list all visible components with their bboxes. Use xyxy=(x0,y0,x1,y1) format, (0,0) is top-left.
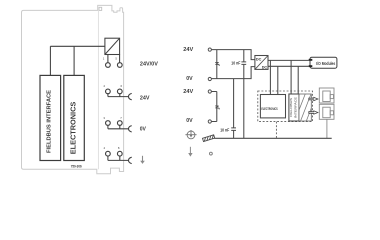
socket earth drop xyxy=(326,119,328,138)
svg-text:FIELDBUS INTERFACE: FIELDBUS INTERFACE xyxy=(46,90,52,153)
contact arrow earth xyxy=(129,157,132,163)
jumper contact arrow top xyxy=(309,97,318,100)
terminal 6 xyxy=(117,89,122,94)
terminal 3 xyxy=(106,121,111,126)
terminal 24V system xyxy=(208,48,211,51)
output rails to I/O modules xyxy=(268,60,309,66)
module housing outline 750-306 xyxy=(22,5,124,173)
svg-text:INTERFACE: INTERFACE xyxy=(293,97,297,118)
terminal 0V field xyxy=(208,120,211,123)
functional earth arrow right xyxy=(189,147,191,153)
capacitor 10nF 0V-earth xyxy=(233,79,235,128)
svg-text:24V/0V: 24V/0V xyxy=(140,61,158,67)
stubs to terminals 1,5 xyxy=(108,55,120,63)
svg-text:0V: 0V xyxy=(186,76,193,82)
earth bus xyxy=(214,137,331,139)
terminal 5 xyxy=(117,63,122,68)
power jumper contact socket top xyxy=(319,88,334,103)
din rail symbol xyxy=(203,135,215,142)
contact arrow 24V xyxy=(129,93,132,99)
terminal 7 xyxy=(117,121,122,126)
jumper contact arrow bottom xyxy=(309,111,318,114)
capacitor 10nF 24V-earth xyxy=(243,50,245,62)
terminal 0V system xyxy=(208,77,211,80)
dashed earth tie xyxy=(275,122,277,139)
terminal 1 xyxy=(106,63,111,68)
field supply wires xyxy=(212,92,217,122)
svg-text:ELECTRONICS: ELECTRONICS xyxy=(261,107,278,111)
svg-text:DC: DC xyxy=(262,65,268,69)
svg-text:I/O Modules: I/O Modules xyxy=(316,61,335,66)
electronics dashed enclosure xyxy=(258,91,313,122)
terminal 4 xyxy=(106,151,111,156)
electronics box xyxy=(260,95,285,118)
svg-text:10 nF: 10 nF xyxy=(231,61,240,66)
small contact circle xyxy=(210,152,213,155)
terminal 24V field xyxy=(208,90,211,93)
svg-text:ELECTRONICS: ELECTRONICS xyxy=(71,101,78,154)
supply bus wires xyxy=(50,46,105,75)
power jumper contact socket bottom xyxy=(319,104,334,119)
I/O modules box xyxy=(310,57,337,68)
wire row 0V xyxy=(108,125,129,128)
rail earth symbol xyxy=(185,130,196,139)
terminal 8 xyxy=(117,151,122,156)
terminal 2 xyxy=(106,89,111,94)
24V rail xyxy=(212,50,255,60)
svg-text:10 nF: 10 nF xyxy=(220,127,229,132)
wire row 24V xyxy=(108,94,129,97)
fieldbus interface box xyxy=(40,75,61,160)
functional earth arrow xyxy=(142,156,144,161)
svg-text:0V: 0V xyxy=(140,126,146,132)
svg-text:24V: 24V xyxy=(183,47,193,53)
housing latch hook xyxy=(99,7,102,10)
0V rail xyxy=(212,67,255,79)
wire row earth xyxy=(108,156,129,160)
power supply converter box xyxy=(105,38,120,54)
contact arrow 0V xyxy=(129,126,132,132)
fieldbus interface box xyxy=(289,94,299,121)
suppressor field xyxy=(215,106,219,110)
svg-text:24V: 24V xyxy=(183,89,193,95)
svg-text:DC: DC xyxy=(256,57,262,61)
svg-text:24V: 24V xyxy=(140,95,150,101)
hatched module wall xyxy=(289,90,321,129)
electronics box (module) xyxy=(64,75,85,160)
housing inner separation line xyxy=(97,10,99,169)
suppressor system xyxy=(216,50,218,79)
dc/dc converter xyxy=(255,56,268,70)
svg-text:750-306: 750-306 xyxy=(71,164,82,168)
taps to internal electronics xyxy=(270,60,298,94)
svg-text:0V: 0V xyxy=(186,118,193,124)
